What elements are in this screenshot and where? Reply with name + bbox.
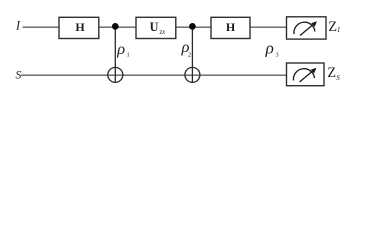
svg-text:I: I bbox=[15, 18, 21, 32]
svg-text:ρ: ρ bbox=[116, 39, 125, 58]
svg-text:H: H bbox=[75, 20, 85, 34]
svg-text:U: U bbox=[150, 20, 159, 34]
meter M2 (measurement box bottom) bbox=[287, 63, 325, 86]
svg-text:H: H bbox=[226, 20, 236, 34]
wire top qubit I bbox=[23, 26, 287, 28]
svg-text:2: 2 bbox=[188, 52, 191, 59]
control dot 1 bbox=[112, 23, 119, 30]
svg-text:S: S bbox=[336, 74, 340, 82]
gate H1 bbox=[59, 17, 99, 38]
CNOT target 1 bbox=[108, 67, 123, 82]
gate U_zx bbox=[136, 17, 176, 38]
svg-text:zx: zx bbox=[159, 29, 166, 36]
svg-text:Z: Z bbox=[328, 19, 337, 35]
wire vertical CNOT 2 bbox=[191, 26, 193, 82]
wire bottom qubit S bbox=[21, 74, 287, 76]
wire vertical CNOT 1 bbox=[114, 26, 116, 82]
gate H2 bbox=[211, 17, 250, 38]
control dot 2 bbox=[189, 23, 196, 30]
svg-text:I: I bbox=[337, 26, 341, 34]
svg-text:Z: Z bbox=[327, 65, 336, 81]
svg-text:S: S bbox=[16, 68, 22, 81]
meter M1 (measurement box top) bbox=[287, 17, 327, 39]
svg-text:ρ: ρ bbox=[265, 38, 274, 57]
svg-text:3: 3 bbox=[275, 52, 279, 59]
CNOT target 2 bbox=[185, 67, 200, 82]
svg-text:1: 1 bbox=[127, 52, 130, 59]
